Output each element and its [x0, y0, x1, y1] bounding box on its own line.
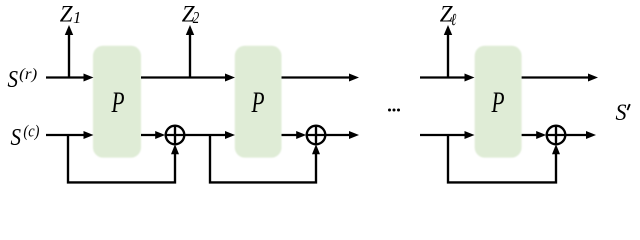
svg-text:ℓ: ℓ — [451, 10, 457, 29]
svg-text:(r): (r) — [19, 64, 37, 83]
svg-text:Z: Z — [60, 2, 73, 27]
svg-text:(c): (c) — [23, 121, 39, 140]
svg-text:2: 2 — [193, 8, 200, 27]
svg-text:S: S — [8, 67, 19, 93]
svg-text:1: 1 — [73, 8, 81, 27]
svg-text:P: P — [491, 86, 505, 119]
svg-text:S: S — [11, 125, 22, 151]
svg-text:P: P — [111, 86, 125, 119]
svg-text:S: S — [616, 100, 627, 125]
svg-text:P: P — [251, 86, 265, 119]
